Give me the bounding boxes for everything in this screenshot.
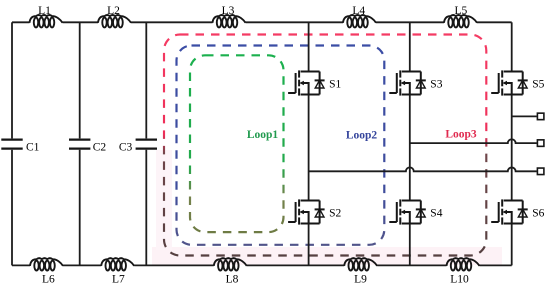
transistor S1	[288, 70, 325, 95]
svg-text:S1: S1	[329, 79, 341, 91]
inductor L9	[344, 258, 377, 270]
wire top bus	[12, 21, 512, 23]
wire leg 3 upper (top bus to C3)	[145, 22, 147, 138]
svg-text:C1: C1	[26, 142, 40, 154]
inductor L1	[30, 15, 63, 27]
svg-text:L10: L10	[450, 274, 469, 286]
svg-text:L1: L1	[38, 5, 51, 17]
wire leg 5 middle (S3 source to S4 drain)	[409, 95, 411, 201]
svg-text:C3: C3	[119, 142, 133, 154]
svg-text:S5: S5	[532, 79, 544, 91]
svg-text:S3: S3	[430, 79, 442, 91]
transistor S2	[288, 199, 325, 224]
inductor L4	[343, 15, 376, 27]
svg-text:L7: L7	[112, 274, 125, 286]
svg-text:Loop1: Loop1	[247, 129, 279, 141]
inductor L6	[30, 258, 63, 270]
svg-text:L3: L3	[222, 5, 235, 17]
transistor S6	[491, 199, 528, 224]
inductor L10	[447, 258, 480, 270]
svg-text:Loop2: Loop2	[346, 130, 378, 142]
transistor S5	[491, 70, 528, 95]
wire leg 5 bottom (S4 source to bottom bus)	[409, 224, 411, 266]
wire leg 1 lower (C1 to bottom bus)	[11, 150, 13, 266]
wire phase A output with hops over legs 5 and 6	[309, 167, 537, 171]
svg-text:L6: L6	[42, 274, 55, 286]
loop Loop3 dashed boundary	[164, 35, 486, 256]
wire leg 2 lower (C2 to bottom bus)	[79, 150, 81, 266]
svg-text:S6: S6	[532, 208, 544, 220]
terminal phase A	[537, 168, 544, 175]
wire leg 4 middle (S1 source to S2 drain)	[308, 95, 310, 201]
svg-text:L5: L5	[455, 5, 468, 17]
svg-text:L8: L8	[226, 274, 239, 286]
pink halo strip along left side of Loop3	[156, 150, 172, 250]
inductor L7	[101, 258, 134, 270]
wire phase C output	[512, 115, 537, 117]
terminal phase C	[537, 113, 544, 120]
wire leg 6 drain of S5	[511, 22, 513, 71]
svg-text:C2: C2	[93, 142, 107, 154]
wire leg 5 drain of S3	[409, 22, 411, 71]
wire leg 1 upper (top bus to C1)	[11, 22, 13, 138]
inductor L3	[213, 15, 246, 27]
capacitor C2	[69, 140, 90, 149]
svg-text:L9: L9	[354, 274, 367, 286]
wire bottom bus	[12, 264, 512, 266]
svg-text:L2: L2	[107, 5, 120, 17]
svg-text:S2: S2	[329, 208, 341, 220]
wire leg 2 upper (top bus to C2)	[79, 22, 81, 138]
wire leg 6 middle (S5 source to S6 drain)	[511, 95, 513, 201]
loop Loop1 dashed boundary	[190, 55, 284, 232]
wire phase B output with hop over leg 6	[410, 139, 537, 143]
transistor S3	[389, 70, 426, 95]
terminal phase B	[537, 140, 544, 147]
capacitor C3	[136, 140, 157, 149]
svg-text:Loop3: Loop3	[445, 129, 477, 141]
wire leg 3 lower (C3 to bottom bus)	[145, 150, 147, 266]
wire leg 4 bottom (S2 source to bottom bus)	[308, 224, 310, 266]
inductor L5	[444, 15, 477, 27]
inductor L2	[98, 15, 131, 27]
loop Loop2 dashed boundary	[177, 46, 385, 245]
transistor S4	[389, 199, 426, 224]
svg-text:L4: L4	[352, 5, 365, 17]
pink halo band along bottom of Loop3	[152, 247, 502, 265]
capacitor C1	[1, 140, 22, 149]
wire leg 4 drain of S1	[308, 22, 310, 71]
wire leg 6 bottom (S6 source to bottom bus)	[511, 224, 513, 266]
svg-text:S4: S4	[430, 208, 442, 220]
inductor L8	[214, 258, 247, 270]
